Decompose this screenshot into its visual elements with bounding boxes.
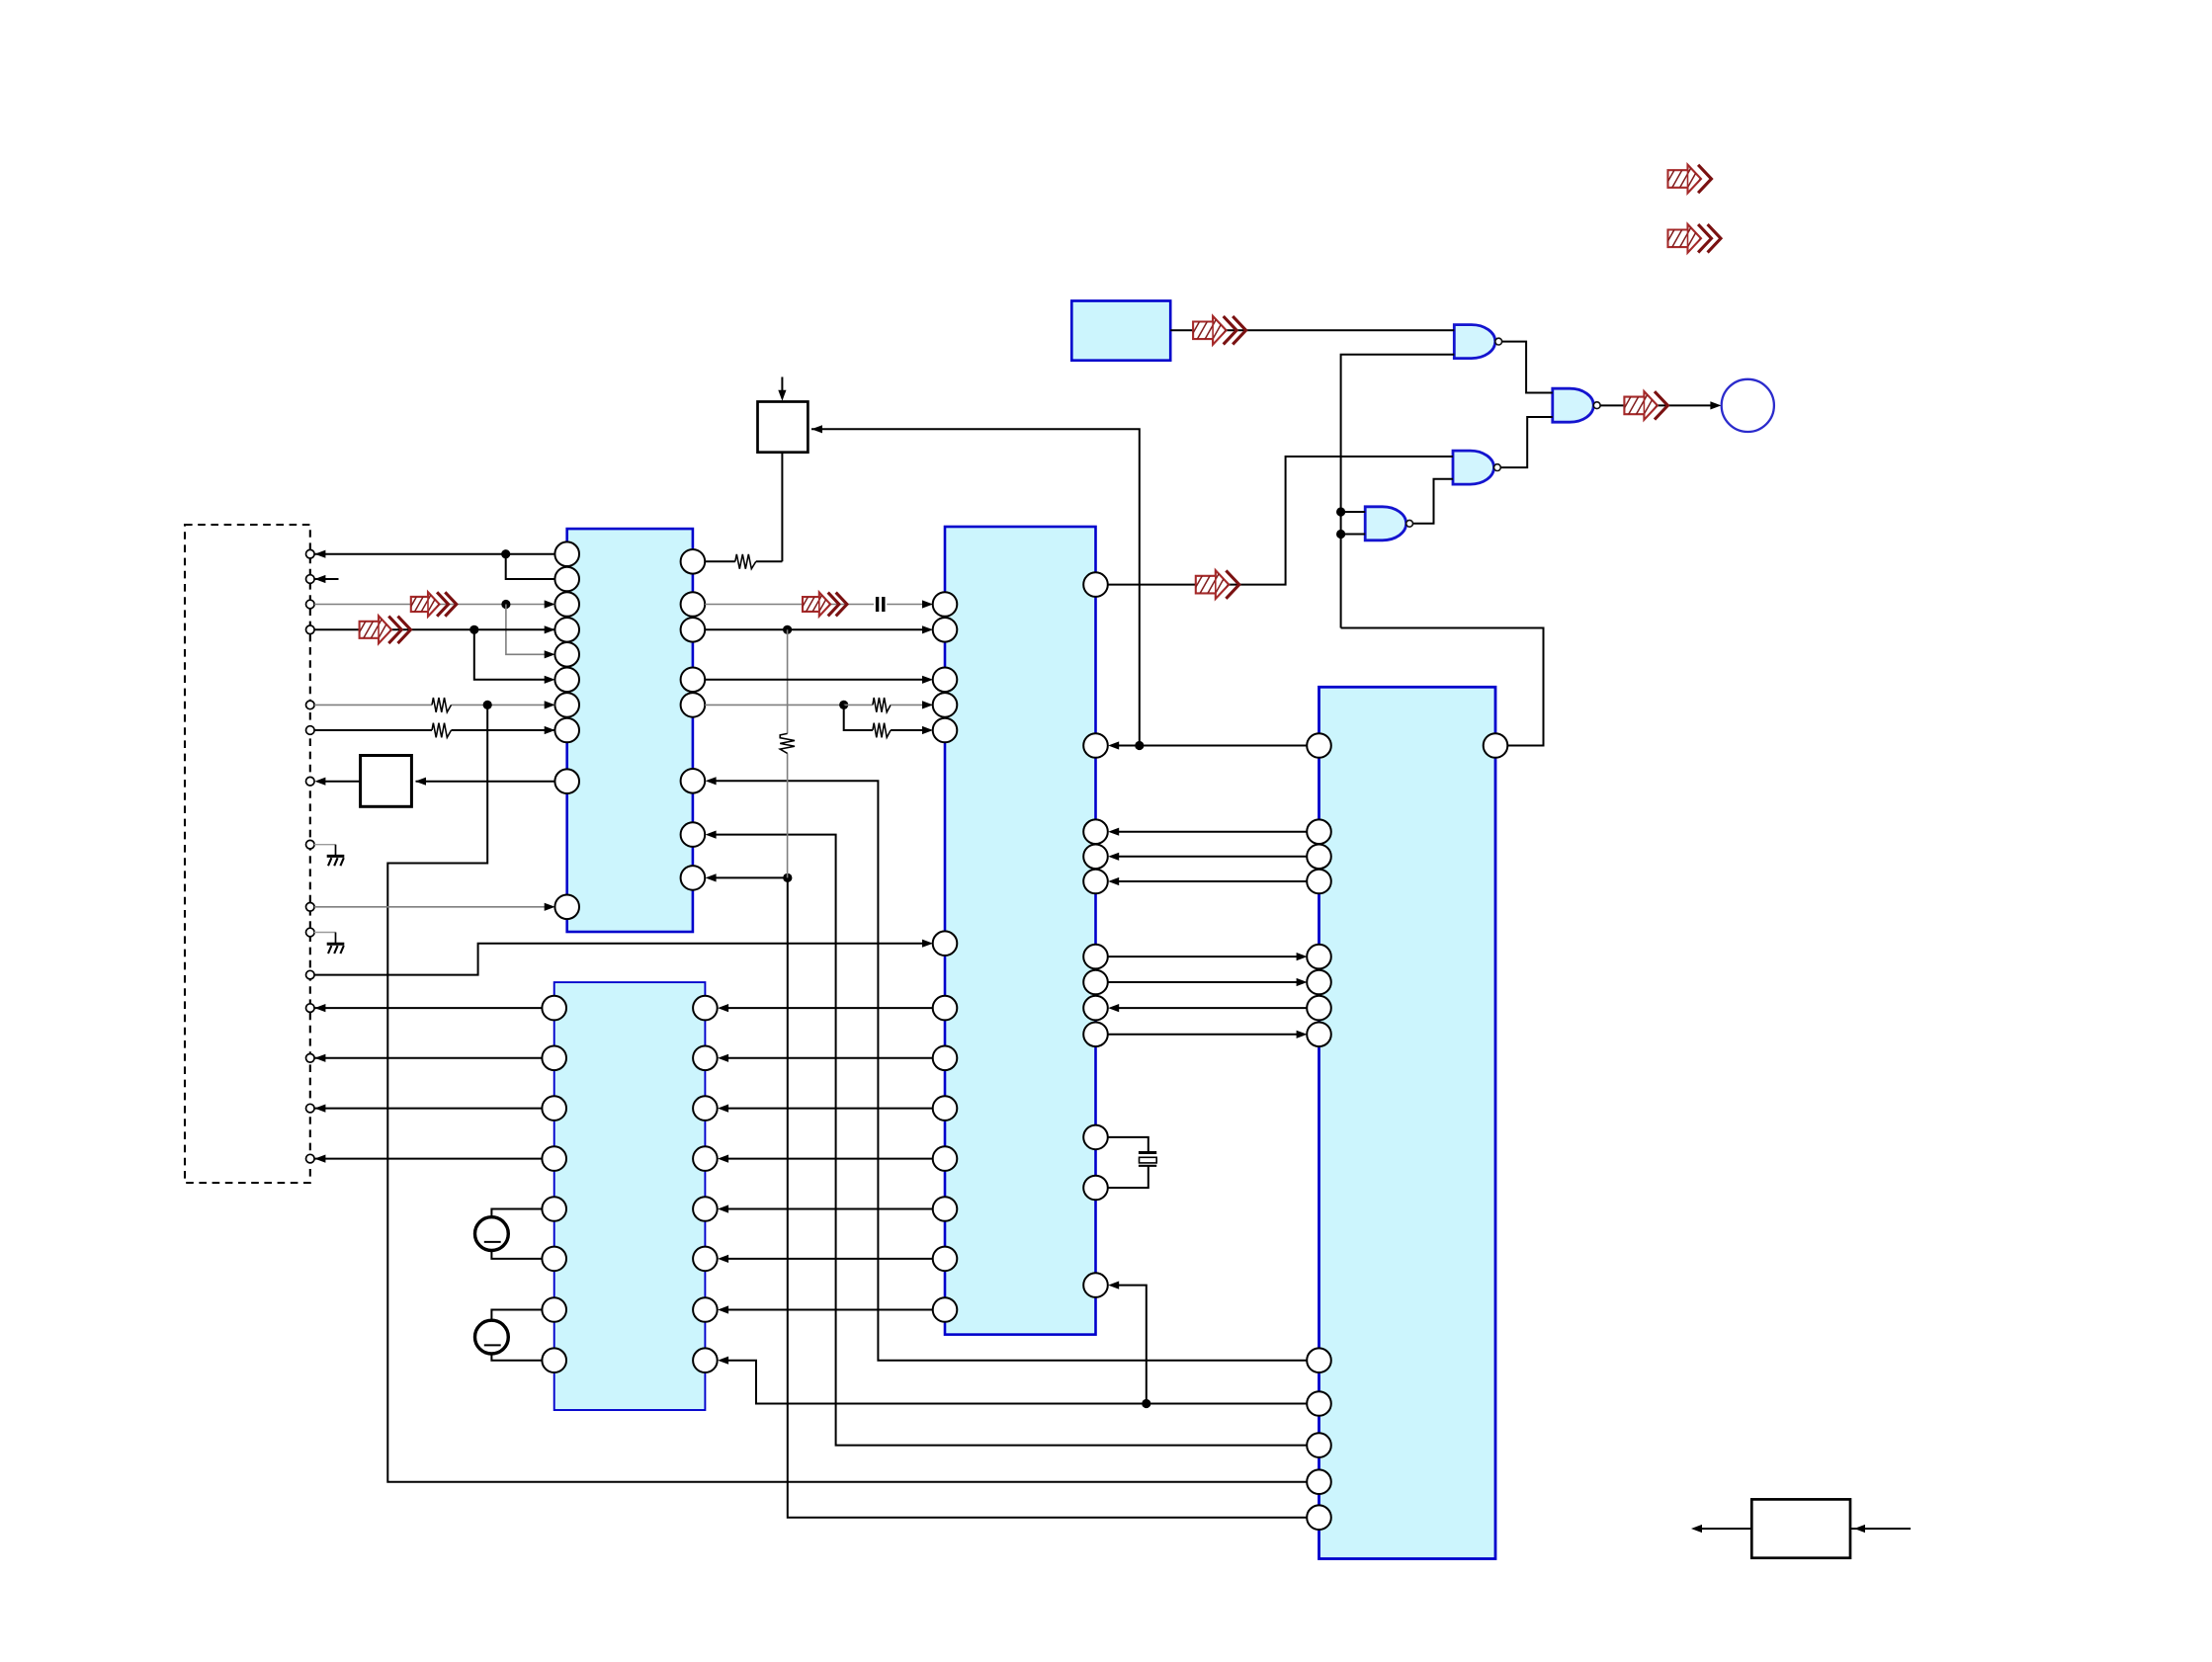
- junction dot G3 input B: [1336, 530, 1345, 539]
- wire net T7: U4 to U3 (row 1020): [1118, 1007, 1307, 1009]
- wire U3 pin to crystal Y1 top: [1108, 1137, 1149, 1152]
- resistor R1: [432, 698, 452, 712]
- module U5 (small box): [1071, 301, 1170, 361]
- nand gate G2: [1453, 451, 1494, 484]
- IC U3 left pins: [933, 592, 958, 617]
- wire net S6R: U3 to U2 (row 1273): [727, 1258, 933, 1260]
- wire net T6: U3 to U4 (row 994): [1108, 981, 1297, 983]
- wire B2 to J1 pin7: [319, 781, 361, 783]
- wire net V3 to U4 pin5: [788, 877, 1307, 1517]
- wire net T1 branch to B1: [811, 429, 1140, 745]
- wire net S4: U2 to J1 (row 1172): [314, 1158, 542, 1160]
- junction dot net A: [501, 549, 510, 558]
- wire net T1: U4 pin to U3 pin: [1118, 745, 1307, 747]
- wire net T2: U4 to U3 (row 841): [1118, 831, 1307, 833]
- IC U1 right pins: [681, 549, 706, 574]
- block B3 left output wire: [1696, 1528, 1751, 1530]
- wire net V1: U1 pin (row 790) to U4 pin1: [715, 781, 1307, 1360]
- wire net S1R: U3 to U2 (row 1020): [727, 1007, 933, 1009]
- block B1 (top square): [758, 402, 808, 453]
- bus-entry arrow W2: [1663, 224, 1722, 253]
- wire net C: J1 pin3 to U1 pin3 (grey): [314, 604, 554, 606]
- wire junction jog to R5: [844, 705, 873, 730]
- wire junction to R4 (grey): [844, 704, 873, 706]
- wire net K: J1 pin9 to U1 pin10 (grey): [314, 906, 545, 908]
- wire net T5: U3 to U4 (row 968): [1108, 956, 1297, 957]
- wire capacitor C1 to U3 pin (grey): [887, 604, 923, 606]
- capacitor C1: [876, 597, 879, 612]
- IC U1 left pins: [554, 541, 579, 566]
- wire U1 pin3R to U3 pin (row 637): [705, 628, 923, 630]
- nand gate G4: [1553, 388, 1594, 422]
- source symbol BT2 (circle): [475, 1320, 509, 1354]
- wire net S3R: U3 to U2 (row 1121): [727, 1108, 933, 1110]
- junction dot net V3: [783, 873, 792, 882]
- wire net S8: U4 to U2 pin8 jog: [727, 1361, 1307, 1404]
- wire net C jog to U1 pin5 (grey): [506, 605, 546, 655]
- wire G3 input A: [1341, 511, 1366, 513]
- wire net V2: U1 pin (row 844) to U4 pin3: [715, 835, 1307, 1446]
- IC U4: [1319, 687, 1496, 1558]
- IC U2 left pins: [542, 996, 566, 1021]
- resistor R3: [735, 554, 756, 569]
- wire G1 output to G4 input: [1502, 342, 1553, 393]
- wire BT2 bottom to U2 pin8: [491, 1354, 542, 1361]
- wire net T4: U4 to U3 (row 892): [1118, 880, 1307, 882]
- wire net G: J1 pin5 to U1 pin7 (grey): [314, 704, 432, 706]
- block B1 input stub arrow: [781, 377, 783, 398]
- block B3 right input wire: [1851, 1528, 1912, 1530]
- junction dot net S8: [1142, 1399, 1150, 1408]
- wire U1 pin1R to R3: [705, 560, 735, 562]
- wire BT1 bottom to U2 pin6: [491, 1251, 542, 1259]
- IC U4 right pin: [1484, 733, 1508, 758]
- block B2 (left square): [361, 756, 412, 807]
- junction dot net C: [501, 600, 510, 609]
- nand gate G3: [1365, 507, 1406, 540]
- wire net A (U1 pin1 to J1 pin1): [314, 553, 554, 555]
- crystal Y1: [1139, 1151, 1156, 1154]
- wire G2 output to G4 input: [1500, 417, 1553, 467]
- wire net V3: U1 pin (row 888) from junction: [715, 876, 788, 878]
- connector J1 (dashed outline): [185, 525, 310, 1183]
- wire net S7R: U3 to U2 (row 1325): [727, 1309, 933, 1311]
- wire grey pull vertical (row 637 down): [787, 629, 789, 733]
- resistor R2: [432, 723, 452, 738]
- wire G1 lower input from vertical bus: [1341, 355, 1455, 628]
- wire crystal Y1 bottom to U3 pin: [1108, 1166, 1149, 1188]
- wire net T3: U4 to U3 (row 866): [1118, 856, 1307, 858]
- wire U1 pin2R to capacitor C1 (grey): [705, 604, 874, 606]
- junction dot net T1: [1135, 741, 1144, 750]
- wire net S1: U2 to J1 (row 1020): [314, 1007, 542, 1009]
- wire BT2 top to U2 pin7: [491, 1310, 542, 1321]
- wire U5 to G1 input: [1170, 329, 1454, 331]
- wire net S2: U2 to J1 (row 1070): [314, 1057, 542, 1059]
- wire J1 pin2 stub: [314, 578, 338, 580]
- wire G4 output to DS1: [1600, 404, 1717, 406]
- wire net T0: U3 to G2 input: [1108, 457, 1453, 585]
- wire U1 pin5R to junction (grey): [705, 704, 844, 706]
- wire net A jog to U1 pin2: [506, 554, 555, 579]
- junction dot net G: [483, 701, 492, 709]
- block B3 (bottom right box): [1751, 1499, 1850, 1557]
- bus-entry arrow W8: [1619, 391, 1667, 420]
- wire net H: J1 pin6 to U1 pin8: [314, 729, 432, 731]
- wire B1 bottom to resistor R3: [781, 453, 783, 562]
- wire BT1 top to U2 pin5: [491, 1209, 542, 1217]
- resistor R6 (vertical): [780, 733, 795, 753]
- IC U2 right pins: [693, 996, 718, 1021]
- wire U1 pin4R to U3 pin (row 688): [705, 679, 923, 681]
- wire R5 to U3 pin: [891, 729, 923, 731]
- bus-entry arrow W5: [1191, 570, 1239, 599]
- wire R4 to U3 pin (grey): [891, 704, 923, 706]
- nand gate G1: [1454, 325, 1495, 359]
- bus-entry arrow W7: [1188, 316, 1246, 345]
- wire net G branch to U4 pin12: [387, 705, 1307, 1481]
- ground chassis 1 (J1 pin8): [314, 844, 336, 846]
- resistor R4: [873, 698, 891, 712]
- IC U4 left pins: [1307, 733, 1331, 758]
- wire net T8: U3 to U4 (row 1046): [1108, 1034, 1297, 1036]
- IC U3 right pins: [1083, 572, 1108, 597]
- IC U1: [567, 529, 693, 932]
- bus-entry arrow W4: [355, 616, 411, 643]
- source symbol BT1 (circle): [475, 1217, 509, 1251]
- wire net D jog to U1 pin6: [474, 629, 546, 680]
- IC U3: [945, 527, 1096, 1335]
- wire net S5R: U3 to U2 (row 1223): [727, 1208, 933, 1210]
- wire net M: J1 pin11 to U3 pin (bottom left): [314, 944, 923, 975]
- ground chassis 2 (J1 pin10): [314, 932, 336, 934]
- junction dot row 637: [783, 625, 792, 634]
- wire vertical bus to U4 right pin: [1341, 628, 1544, 746]
- wire G3 output to G2 input: [1413, 479, 1454, 524]
- bus-entry arrow W6: [799, 592, 847, 616]
- wire net S3: U2 to J1 (row 1121): [314, 1108, 542, 1110]
- wire net S4R: U3 to U2 (row 1172): [727, 1158, 933, 1160]
- bus-entry arrow W1: [1663, 165, 1712, 194]
- resistor R5: [873, 723, 891, 738]
- wire net S2R: U3 to U2 (row 1070): [727, 1057, 933, 1059]
- junction dot net D: [469, 625, 478, 634]
- wire U1 pin9 to B2: [416, 781, 555, 783]
- wire net S8 branch to U3 pin (bottom right): [1118, 1286, 1147, 1404]
- connector J1 pins: [306, 549, 315, 558]
- junction dot G3 input A: [1336, 507, 1345, 516]
- wire net D: J1 pin4 to U1 pin4: [314, 628, 554, 630]
- junction dot row 713: [839, 701, 848, 709]
- bus-entry arrow W3: [407, 592, 457, 617]
- wire G3 input B: [1341, 534, 1366, 536]
- indicator DS1 (circle): [1722, 379, 1774, 432]
- IC U2: [554, 982, 706, 1410]
